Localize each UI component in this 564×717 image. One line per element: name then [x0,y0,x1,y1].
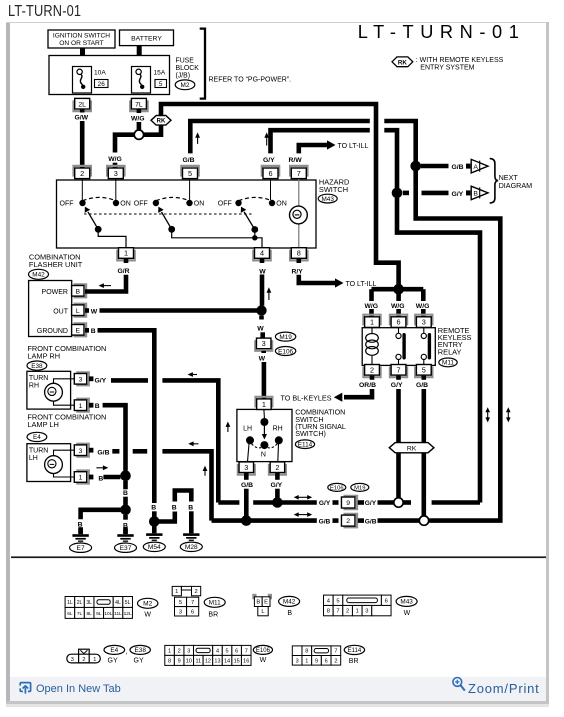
combination switch pin 2 [269,462,286,475]
svg-text:G/Y: G/Y [95,378,107,385]
RK option hexagon on W/G riser [151,116,171,126]
svg-text:E38: E38 [31,363,43,370]
svg-text:RK: RK [398,59,407,66]
svg-text:5: 5 [336,598,339,604]
remote keyless entry relay pin 3 [415,315,432,328]
splice B at E37/E7 [120,505,131,516]
svg-text:B: B [473,191,478,198]
splice G/Y next-diagram B [392,188,403,199]
svg-text:1: 1 [79,403,83,410]
svg-text:RH: RH [29,383,39,390]
remote keyless entry relay pin 2 [363,365,380,378]
svg-text:E: E [76,327,81,334]
wire G/Y comb switch pin 2 [271,473,283,498]
svg-text:1: 1 [93,657,96,663]
svg-text:SWITCH: SWITCH [319,185,348,194]
wire G/R hazard pin 1 to flasher power [85,259,130,292]
svg-text:ON: ON [194,201,205,208]
svg-text:W: W [91,308,98,315]
wire W/G main run to keyless relay [143,104,398,285]
hazard dashed interlock line [84,213,252,215]
junction W/G (option splice) [134,130,143,139]
svg-text:E7: E7 [77,545,85,552]
inline connector 3 M19/E106 [255,332,296,355]
svg-text:E114: E114 [298,442,313,449]
hazard pin 4 [253,248,270,261]
svg-text:W: W [257,326,264,333]
svg-text:3: 3 [244,463,248,472]
svg-text:5: 5 [226,648,229,654]
wire W down to combination switch [257,316,264,338]
svg-text:2L: 2L [78,101,86,108]
svg-text:1: 1 [168,648,171,654]
svg-text:G/B: G/B [416,382,428,389]
svg-text:W: W [259,268,266,275]
lamp RH pin 1 [74,399,93,412]
arrow on G/B lamp run [191,443,199,445]
svg-text:M42: M42 [32,272,45,279]
splice G/B next-diagram A [410,161,421,172]
svg-text:TO LT-ILL: TO LT-ILL [346,281,377,288]
svg-text:7L: 7L [77,611,83,617]
svg-text:2: 2 [370,365,374,374]
svg-text:LH: LH [29,455,38,462]
svg-text:3: 3 [296,658,299,664]
combination switch labels E114 [295,408,346,449]
splice W/G above relay [393,284,404,295]
splice G/Y at comb switch [272,497,283,508]
svg-text:11L: 11L [114,611,122,617]
svg-text:R/W: R/W [289,157,303,164]
inline connector ovals E106 M19 [328,483,369,491]
svg-text:W: W [144,611,151,618]
svg-text:G/Y: G/Y [452,191,464,198]
svg-text:10L: 10L [104,611,112,617]
svg-text:G/B: G/B [319,518,331,525]
svg-text:RELAY: RELAY [438,347,462,356]
connector table M42 [252,594,299,617]
svg-text:B: B [188,505,193,512]
svg-text:G/B: G/B [183,157,195,164]
svg-text:3: 3 [79,448,83,455]
svg-text:6L: 6L [67,611,73,617]
svg-text:M42: M42 [283,599,296,606]
ground E37 [115,527,137,552]
fuse 15A [5] [132,67,167,94]
wire G/Y row right [358,500,394,507]
svg-text:6: 6 [235,648,238,654]
svg-text:4L: 4L [115,600,121,606]
svg-text:G/Y: G/Y [263,157,275,164]
ground M54 [143,526,165,551]
svg-text:LH: LH [243,425,252,432]
wire G/B lamp LH [97,449,211,520]
svg-text:M11: M11 [442,360,454,367]
svg-text:W: W [259,355,266,362]
connector 7 [290,166,307,179]
svg-text:13: 13 [214,658,220,664]
connector 3 [107,166,124,179]
svg-text:GY: GY [134,657,144,664]
svg-text:7: 7 [191,600,194,606]
svg-text:6: 6 [396,318,400,327]
wire B to E37 [123,481,128,505]
wire G/B row right [358,518,419,525]
arrow on G/B riser [197,135,199,144]
svg-text:3: 3 [365,609,368,615]
svg-text:12L: 12L [124,611,132,617]
arrow toward flasher power [101,285,111,287]
svg-text:2: 2 [80,169,84,178]
svg-text:BR: BR [208,611,218,618]
svg-text:W/G: W/G [108,156,122,163]
hazard internal contacts section 1 [60,179,131,248]
wire W to turn signal switch pin 1 [259,351,266,399]
svg-text:IGNITION SWITCH: IGNITION SWITCH [53,33,110,40]
svg-text:2L: 2L [77,600,83,606]
svg-text:7: 7 [297,169,301,178]
svg-text:3: 3 [114,169,118,178]
svg-text:1L: 1L [67,600,73,606]
svg-text:GROUND: GROUND [37,328,68,335]
splice W out/pin4 [256,305,266,315]
connector 2 [74,166,91,179]
wire battery to fuse block [137,45,142,56]
wire B down to E37 ground [123,515,128,534]
svg-text:10A: 10A [94,70,106,77]
svg-text:4: 4 [260,249,264,258]
svg-text:R/Y: R/Y [292,268,304,275]
remote keyless entry relay pin 5 [415,365,432,378]
hazard pin 1 [117,248,134,261]
connector table E4/E38 [67,645,151,664]
fuse block J/B box [49,56,170,95]
svg-text:2: 2 [334,658,337,664]
svg-text:RK: RK [407,445,417,452]
svg-text:6: 6 [385,598,388,604]
svg-text:3L: 3L [86,600,92,606]
svg-text:G/B: G/B [365,518,377,525]
svg-text:REFER TO “PG-POWER”.: REFER TO “PG-POWER”. [209,77,292,84]
svg-text:A: A [473,164,478,171]
svg-text:7: 7 [334,649,337,655]
svg-text:26: 26 [98,81,106,88]
svg-text:1: 1 [124,249,128,258]
svg-text:8: 8 [305,649,308,655]
svg-text:2: 2 [275,463,279,472]
lamp LH pin 1 [74,471,93,484]
remote keyless entry relay pin 7 [390,365,407,378]
svg-text:B: B [95,403,100,410]
svg-text:5: 5 [159,81,163,88]
wire W to hazard pin 4 [259,259,266,306]
svg-text:5L: 5L [125,600,131,606]
svg-text:E: E [264,600,268,606]
svg-text:1: 1 [356,609,359,615]
battery feed box [120,30,174,46]
remote keyless entry relay labels M11 [438,326,472,367]
arrow on G/B lamp riser [204,468,206,476]
hazard switch box M43 [57,180,317,248]
wire B lamp LH [98,476,120,483]
inline connector 2 [341,514,357,527]
svg-text:M43: M43 [321,196,334,203]
wire G/B from hazard pin 5 [183,121,501,521]
wire G/Y continuation down right side [397,198,480,503]
svg-text:M28: M28 [185,544,198,551]
svg-text:M54: M54 [148,544,161,551]
svg-text:RK: RK [157,119,166,125]
connector 7L [130,98,147,111]
svg-text:B: B [172,505,177,512]
svg-text:DIAGRAM: DIAGRAM [499,181,533,190]
svg-text:15: 15 [234,658,240,664]
svg-text:TURN: TURN [29,375,48,382]
svg-text:4: 4 [216,648,219,654]
svg-text:ENTRY SYSTEM: ENTRY SYSTEM [420,65,474,72]
svg-text:W/G: W/G [391,303,405,310]
svg-text:M11: M11 [209,600,221,607]
svg-text:W/G: W/G [365,303,379,310]
svg-text:B: B [123,490,128,497]
svg-text:G/B: G/B [452,164,464,171]
lamp RH pin 3 [74,372,93,385]
svg-text:LT-TURN-01: LT-TURN-01 [358,23,526,42]
svg-text:G/W: G/W [75,114,89,121]
wire G/B comb switch pin 3 [241,473,253,516]
svg-text:5: 5 [422,365,426,374]
svg-text:BLOCK: BLOCK [176,65,200,72]
svg-text:ON: ON [276,201,287,208]
svg-text:LAMP LH: LAMP LH [27,420,59,429]
svg-text:16: 16 [243,658,249,664]
wire ignition to fuse block [80,48,85,57]
RK legend [392,57,504,72]
svg-text:ON OR START: ON OR START [59,40,103,47]
svg-text:1: 1 [305,658,308,664]
combination flasher unit box [29,281,72,337]
svg-text:E37: E37 [120,545,132,552]
svg-text:B: B [287,610,292,617]
svg-text:TO BL-KEYLES: TO BL-KEYLES [281,394,332,403]
front combination lamp LH box [27,444,74,482]
svg-text:1: 1 [262,400,266,409]
svg-text:15A: 15A [154,70,166,77]
wire OR/B relay pin 2 to BL-KEYLES [281,376,377,403]
svg-text:2: 2 [178,648,181,654]
svg-text:2: 2 [194,589,197,595]
svg-text:TO LT-ILL: TO LT-ILL [338,143,369,150]
splice G/Y relay (option) [394,498,403,507]
wire G/Y lamp RH [95,378,219,503]
svg-text:3: 3 [422,318,426,327]
connector table M43 [324,595,418,617]
svg-text:7L: 7L [135,101,143,108]
svg-text:: WITH REMOTE KEYLESS: : WITH REMOTE KEYLESS [416,57,504,64]
svg-text:W/G: W/G [131,116,145,123]
svg-text:E38: E38 [135,647,147,654]
wire B branch to E7 [78,510,126,534]
splice G/B at comb switch [241,515,252,526]
svg-text:3: 3 [262,339,266,348]
svg-text:M19: M19 [354,485,365,491]
svg-text:G/Y: G/Y [319,500,331,507]
svg-text:9: 9 [315,658,318,664]
svg-text:OFF: OFF [134,201,148,208]
svg-text:9: 9 [346,500,350,507]
svg-text:G/Y: G/Y [271,482,283,489]
separator line [11,556,546,558]
svg-text:W: W [404,610,411,617]
svg-text:G/B: G/B [241,482,253,489]
connector table M11 [172,586,225,618]
connector table M2 [65,597,158,619]
svg-text:7: 7 [336,609,339,615]
hazard internal contacts section 2 [134,179,262,248]
svg-text:,: , [125,649,127,656]
RK option hexagon on relay wires [389,443,434,453]
arrow on B lamp LH [96,467,105,469]
svg-text:11: 11 [195,658,201,664]
svg-text:B: B [98,476,103,483]
fuse 10A [26] [73,67,109,94]
svg-text:E106: E106 [278,348,293,355]
svg-text:8L: 8L [86,611,92,617]
svg-text:14: 14 [224,658,230,664]
front combination lamp RH box [27,371,74,409]
wire R/Y hazard pin 8 to LT-ILL [292,259,377,289]
svg-text:7: 7 [245,648,248,654]
svg-text:GY: GY [108,657,118,664]
svg-text:1: 1 [370,318,374,327]
svg-text:2: 2 [346,609,349,615]
combination switch box E114 [237,409,292,461]
flasher pin E [72,323,87,336]
svg-text:5: 5 [188,169,192,178]
svg-text:ON: ON [120,201,131,208]
svg-text:2: 2 [346,518,350,525]
wire W/G battery feed [131,109,145,130]
combination switch pin 3 [238,462,255,475]
svg-text:3: 3 [187,648,190,654]
svg-text:8: 8 [327,609,330,615]
front combination lamp RH label E38 [27,344,106,370]
svg-text:5: 5 [179,600,182,606]
svg-text:OUT: OUT [53,308,69,315]
svg-text:9L: 9L [96,611,102,617]
remote keyless entry relay pin 1 [363,315,380,328]
arrow on G/Y riser [266,135,268,146]
branch G/B to next diagram A [421,159,488,173]
svg-text:M2: M2 [143,601,152,608]
svg-text:TURN: TURN [29,447,48,454]
svg-text:3: 3 [179,609,182,615]
svg-text:G/Y: G/Y [391,382,403,389]
arrow on G/Y lamp run [190,374,197,376]
combination switch internals [243,409,283,461]
svg-text:6: 6 [191,609,194,615]
lamp LH pin 3 [74,444,93,457]
svg-text:3: 3 [71,657,74,663]
svg-text:6: 6 [268,169,272,178]
ground E7 [70,527,92,552]
svg-text:OR/B: OR/B [359,382,376,389]
hazard pin 8 [290,248,307,261]
wire G/Y relay pin 7 [391,376,403,498]
hazard switch label M43 [318,178,349,203]
double arrow G/B row [296,514,310,516]
wire G/Y from hazard pin 6 [263,130,397,188]
svg-text:FUSE: FUSE [176,58,195,65]
svg-text:BR: BR [349,658,359,665]
wire W flasher out [85,308,257,315]
svg-text:10: 10 [186,658,192,664]
svg-text:M19: M19 [279,334,292,341]
brace next diagram [490,159,532,203]
wire W/G to hazard pin 3 [108,135,134,168]
svg-text:12: 12 [205,658,211,664]
svg-text:G/R: G/R [118,268,130,275]
flasher pin B [72,284,87,297]
remote keyless entry relay pin 6 [390,315,407,328]
hazard internal contacts section 3 [218,179,287,241]
combination switch pin 1 [255,397,272,410]
connector 2L [74,98,91,111]
wire G/B row [212,518,339,525]
front combination lamp LH label E4 [27,412,106,441]
svg-text:B: B [151,505,156,512]
svg-text:G/B: G/B [97,449,109,456]
connector 6 [262,166,279,179]
svg-text:E114: E114 [348,648,362,654]
svg-text:B: B [256,600,260,606]
fuse block label M2 [175,58,199,90]
svg-text:1: 1 [175,589,178,595]
wire G/Y row [218,500,338,507]
wire G/W ignition feed [75,109,89,168]
svg-text:N: N [261,451,266,458]
svg-text:9: 9 [178,658,181,664]
svg-text:3: 3 [79,376,83,383]
svg-text:W/G: W/G [416,303,430,310]
svg-text:1: 1 [79,475,83,482]
svg-text:BATTERY: BATTERY [131,36,162,43]
svg-text:6: 6 [325,658,328,664]
svg-text:LAMP RH: LAMP RH [27,351,60,360]
svg-text:8: 8 [297,249,301,258]
svg-text:M2: M2 [181,82,190,89]
bracket refer to PG-POWER [200,29,291,99]
ground M28 [180,526,202,551]
svg-text:E4: E4 [33,434,41,441]
svg-text:B: B [91,328,96,335]
svg-text:FLASHER UNIT: FLASHER UNIT [29,260,83,269]
combination flasher unit label M42 [29,253,83,280]
wire G/B relay pin 5 [416,376,428,516]
svg-text:E106: E106 [330,485,344,491]
svg-text:7: 7 [396,365,400,374]
svg-text:B: B [76,288,81,295]
ignition switch feed box [48,30,115,48]
flasher pin L [72,304,87,317]
splice B lamps [120,470,131,481]
splice G/B relay (option) [419,516,428,525]
wire B branch to M28 [154,491,193,528]
svg-text:OFF: OFF [218,201,232,208]
svg-text:SWITCH): SWITCH) [295,429,326,438]
svg-text:RH: RH [273,425,283,432]
connector 5 [181,166,198,179]
